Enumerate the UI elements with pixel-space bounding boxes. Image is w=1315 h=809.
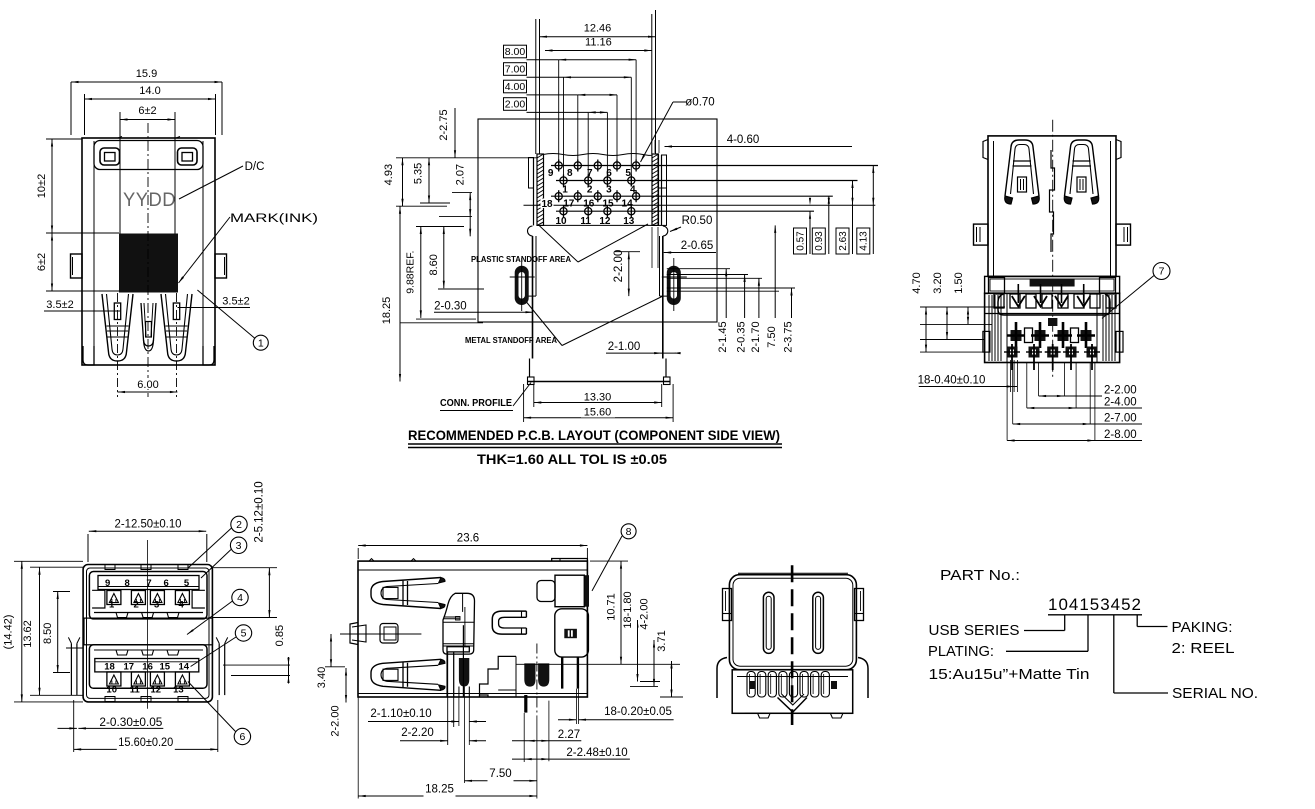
svg-text:2.27: 2.27 [558,729,580,741]
svg-text:13: 13 [173,685,184,696]
svg-text:14: 14 [179,662,190,673]
svg-text:15:Au15u”+Matte Tin: 15:Au15u”+Matte Tin [929,666,1090,683]
svg-text:8: 8 [567,168,573,179]
svg-text:4.13: 4.13 [859,231,870,251]
svg-text:4.70: 4.70 [911,272,923,293]
svg-text:0.57: 0.57 [795,231,806,251]
svg-text:0.85: 0.85 [274,625,286,646]
svg-text:15: 15 [602,199,614,210]
svg-text:2: 2 [134,600,139,611]
svg-text:13: 13 [623,216,635,227]
svg-text:7: 7 [587,168,593,179]
svg-text:2-8.00: 2-8.00 [1104,429,1137,441]
svg-text:5: 5 [625,168,631,179]
svg-text:18.25: 18.25 [381,297,393,325]
svg-text:2-0.30: 2-0.30 [434,301,467,313]
svg-text:13.30: 13.30 [584,392,612,404]
svg-text:4.00: 4.00 [505,81,526,93]
svg-text:104153452: 104153452 [1048,596,1142,614]
svg-text:2-12.50±0.10: 2-12.50±0.10 [115,519,182,531]
svg-text:18: 18 [104,662,115,673]
svg-text:4: 4 [237,592,243,604]
svg-text:2-3.75: 2-3.75 [783,321,795,352]
svg-text:2-2.00: 2-2.00 [330,705,342,736]
svg-text:5: 5 [184,578,190,589]
svg-text:D/C: D/C [245,161,265,173]
svg-text:SERIAL NO.: SERIAL NO. [1172,685,1258,702]
svg-text:2: 2 [587,185,593,196]
svg-text:6±2: 6±2 [138,105,156,117]
svg-text:9: 9 [105,578,110,589]
svg-text:3.5±2: 3.5±2 [222,296,249,308]
svg-text:18-0.40±0.10: 18-0.40±0.10 [918,375,986,387]
svg-text:PAKING:: PAKING: [1172,619,1233,636]
svg-text:4: 4 [178,600,184,611]
svg-text:3.5±2: 3.5±2 [46,299,73,311]
svg-text:1: 1 [258,337,264,349]
svg-text:1: 1 [109,600,115,611]
svg-text:2-2.20: 2-2.20 [401,727,434,739]
svg-text:R0.50: R0.50 [682,215,713,227]
svg-text:2-1.45: 2-1.45 [717,321,729,352]
svg-text:2.07: 2.07 [454,164,466,185]
svg-text:2-4.00: 2-4.00 [1104,397,1137,409]
svg-text:14.0: 14.0 [139,85,160,97]
svg-text:4-2.00: 4-2.00 [639,598,651,629]
svg-text:6.00: 6.00 [137,379,158,391]
svg-text:2-1.10±0.10: 2-1.10±0.10 [370,708,431,720]
svg-text:6: 6 [606,168,612,179]
svg-text:17: 17 [124,662,135,673]
svg-text:15.9: 15.9 [136,68,157,80]
svg-text:8.00: 8.00 [505,46,526,58]
svg-text:1: 1 [562,185,568,196]
svg-text:10: 10 [106,685,117,696]
svg-text:5: 5 [241,628,247,640]
svg-text:7.50: 7.50 [489,768,511,780]
svg-text:6: 6 [163,578,168,589]
svg-text:PLASTIC STANDOFF AREA: PLASTIC STANDOFF AREA [471,255,571,264]
svg-text:8: 8 [125,578,130,589]
svg-text:2-7.00: 2-7.00 [1104,413,1137,425]
svg-text:3.40: 3.40 [316,667,328,688]
svg-text:2.00: 2.00 [505,99,526,111]
svg-text:2-0.65: 2-0.65 [681,240,714,252]
svg-text:4.93: 4.93 [383,164,395,185]
svg-text:3.20: 3.20 [932,272,944,293]
svg-text:1.50: 1.50 [953,272,965,293]
svg-text:18-1.80: 18-1.80 [622,591,634,628]
svg-text:11: 11 [130,685,141,696]
svg-text:6±2: 6±2 [36,253,48,271]
svg-text:2-2.48±0.10: 2-2.48±0.10 [566,747,627,759]
svg-text:3: 3 [236,540,242,552]
svg-text:5.35: 5.35 [413,163,425,184]
svg-text:2: REEL: 2: REEL [1172,640,1235,657]
svg-text:18.25: 18.25 [425,784,454,796]
svg-text:8: 8 [626,526,632,538]
svg-text:4: 4 [630,185,636,196]
svg-text:15.60±0.20: 15.60±0.20 [118,737,173,749]
svg-text:15: 15 [160,662,171,673]
svg-text:2-0.30±0.05: 2-0.30±0.05 [99,717,162,729]
svg-text:PART No.:: PART No.: [940,567,1020,584]
svg-text:12: 12 [151,685,162,696]
svg-text:17: 17 [563,199,575,210]
svg-text:2-2.00: 2-2.00 [1104,385,1137,397]
svg-text:ø0.70: ø0.70 [685,97,714,109]
svg-text:2-1.70: 2-1.70 [750,321,762,352]
svg-text:PLATING:: PLATING: [928,643,994,660]
svg-text:8.50: 8.50 [42,623,54,644]
svg-text:8.60: 8.60 [428,254,440,275]
svg-text:2-1.00: 2-1.00 [608,341,641,353]
svg-text:12: 12 [599,216,611,227]
svg-text:10.71: 10.71 [606,593,618,621]
svg-text:7: 7 [146,578,151,589]
svg-text:2-5.12±0.10: 2-5.12±0.10 [254,481,266,542]
svg-text:14: 14 [622,199,634,210]
svg-text:USB SERIES: USB SERIES [929,622,1020,639]
svg-text:7: 7 [1159,266,1165,278]
svg-text:2: 2 [236,519,242,531]
svg-text:18-0.20±0.05: 18-0.20±0.05 [604,706,672,718]
svg-text:3: 3 [154,600,159,611]
svg-text:10±2: 10±2 [36,174,48,198]
svg-text:CONN. PROFILE: CONN. PROFILE [440,397,512,409]
svg-text:RECOMMENDED P.C.B. LAYOUT (COM: RECOMMENDED P.C.B. LAYOUT (COMPONENT SID… [408,428,780,443]
svg-text:(14.42): (14.42) [3,615,15,650]
svg-text:YYDD: YYDD [123,190,176,211]
svg-text:2-2.00: 2-2.00 [613,250,625,283]
svg-text:13.62: 13.62 [22,620,34,648]
svg-text:2-0.35: 2-0.35 [736,321,748,352]
svg-text:6: 6 [239,731,245,743]
svg-text:2.63: 2.63 [838,231,849,251]
svg-text:9.88REF.: 9.88REF. [404,251,416,294]
svg-text:11: 11 [580,216,591,227]
svg-text:THK=1.60 ALL TOL IS ±0.05: THK=1.60 ALL TOL IS ±0.05 [477,452,668,467]
svg-text:11.16: 11.16 [585,37,612,49]
svg-text:15.60: 15.60 [584,407,612,419]
svg-text:4-0.60: 4-0.60 [727,134,760,146]
svg-text:METAL STANDOFF AREA: METAL STANDOFF AREA [465,336,557,345]
svg-text:3.71: 3.71 [656,630,668,651]
svg-text:7.50: 7.50 [766,326,778,347]
svg-text:23.6: 23.6 [457,533,479,545]
svg-text:7.00: 7.00 [505,64,526,76]
svg-text:18: 18 [541,199,553,210]
svg-text:16: 16 [142,662,153,673]
svg-text:10: 10 [555,216,567,227]
svg-text:0.93: 0.93 [814,231,825,251]
svg-text:9: 9 [548,168,554,179]
svg-text:3: 3 [606,185,612,196]
svg-text:2-2.75: 2-2.75 [438,109,450,140]
svg-text:12.46: 12.46 [584,23,612,35]
svg-text:MARK(INK): MARK(INK) [230,213,318,225]
svg-text:16: 16 [583,199,595,210]
